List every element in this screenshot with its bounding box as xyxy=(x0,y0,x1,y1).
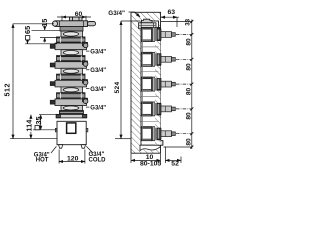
svg-text:512: 512 xyxy=(3,83,12,97)
svg-text:52: 52 xyxy=(171,161,179,168)
svg-text:120: 120 xyxy=(67,156,79,163)
svg-text:COLD: COLD xyxy=(89,157,107,163)
svg-text:114: 114 xyxy=(24,119,33,132)
svg-text:60: 60 xyxy=(75,11,83,18)
svg-text:80: 80 xyxy=(185,63,192,71)
svg-text:524: 524 xyxy=(114,82,121,94)
svg-text:15: 15 xyxy=(40,19,49,27)
svg-text:G3/4": G3/4" xyxy=(108,10,125,17)
svg-text:80: 80 xyxy=(185,88,192,96)
svg-text:35: 35 xyxy=(34,116,43,124)
svg-text:G3/4": G3/4" xyxy=(90,50,106,56)
svg-text:G3/4": G3/4" xyxy=(90,87,106,93)
svg-text:G3/4": G3/4" xyxy=(90,68,106,74)
svg-text:80: 80 xyxy=(185,138,192,146)
svg-text:80-105: 80-105 xyxy=(140,161,161,168)
svg-text:65: 65 xyxy=(23,26,32,34)
svg-text:HOT: HOT xyxy=(36,158,49,164)
svg-text:80: 80 xyxy=(185,38,192,46)
svg-text:80: 80 xyxy=(185,112,192,120)
svg-text:33: 33 xyxy=(184,18,191,25)
svg-text:63: 63 xyxy=(168,9,176,16)
svg-text:G3/4": G3/4" xyxy=(90,106,106,112)
